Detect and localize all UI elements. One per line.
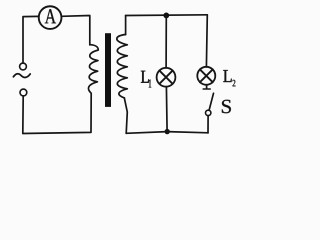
transformer iron core bar xyxy=(105,33,111,107)
lamp L2 cross diagonal 1 xyxy=(200,69,213,82)
transformer secondary coil (right winding) xyxy=(117,35,127,98)
wire: ammeter to transformer primary top corner and down-lead xyxy=(62,16,90,45)
wire: stub from L2 bottom to switch fixed contact xyxy=(206,85,208,89)
wire: L2 upper branch xyxy=(205,15,208,67)
wire: secondary bottom wire xyxy=(126,132,208,134)
wire: secondary coil top lead up to top wire corner xyxy=(125,16,127,35)
label L2 xyxy=(223,70,231,82)
switch S lever (open) xyxy=(209,93,213,110)
label L1 xyxy=(141,71,149,83)
AC source tilde symbol xyxy=(13,74,30,78)
ammeter A1 circle xyxy=(39,6,62,29)
junction dot bottom (node on bottom wire) xyxy=(165,129,170,134)
wire: left vertical and top wire from AC source up to ammeter xyxy=(23,16,39,63)
AC source top terminal xyxy=(20,63,27,70)
switch S pivot circle xyxy=(206,110,211,115)
wire: secondary coil bottom lead down to bottom wire xyxy=(124,98,127,134)
lamp L2 circle xyxy=(197,67,215,85)
lamp L1 cross diagonal 1 xyxy=(159,71,172,84)
transformer primary coil (left winding) xyxy=(88,45,98,93)
wire: L1 upper branch xyxy=(165,15,167,68)
wire: secondary top wire from coil to L2 branch xyxy=(126,14,208,17)
lamp L2 cross diagonal 2 xyxy=(200,69,213,82)
switch S fixed contact T-bar xyxy=(203,88,210,90)
wire: bottom terminal down, along bottom, up to primary coil xyxy=(23,94,91,134)
wire: switch pivot down to bottom wire xyxy=(207,116,209,133)
lamp L1 circle xyxy=(157,68,176,87)
label L1 subscript 1 xyxy=(149,80,151,88)
lamp L1 cross diagonal 2 xyxy=(159,71,172,84)
junction dot top (node joining L1 branch) xyxy=(163,13,169,19)
label S xyxy=(222,100,231,113)
wire: L1 lower branch xyxy=(165,87,168,132)
ammeter A1 label "A" xyxy=(45,9,56,23)
label L2 subscript 2 xyxy=(233,80,236,86)
AC source bottom terminal xyxy=(20,89,27,96)
